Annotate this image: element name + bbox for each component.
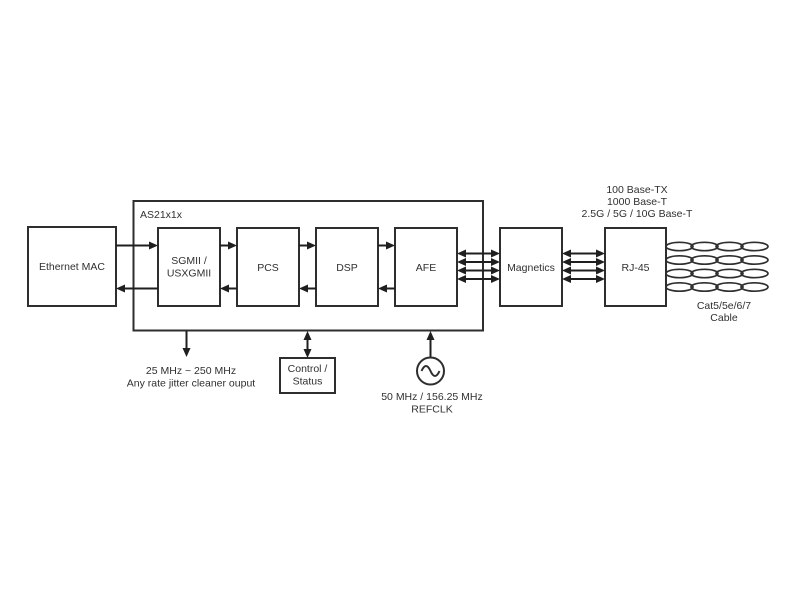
wire Magnetics-RJ45 pair1 xyxy=(569,253,598,255)
svg-text:1000 Base-T: 1000 Base-T xyxy=(607,196,668,208)
svg-text:Control /: Control / xyxy=(288,363,328,375)
twisted pair cable row3 xyxy=(666,269,768,277)
twisted pair cable row1 xyxy=(666,242,768,250)
wire AFE-Magnetics pair2 xyxy=(464,261,493,263)
svg-text:2.5G / 5G / 10G Base-T: 2.5G / 5G / 10G Base-T xyxy=(582,208,693,220)
block DSP xyxy=(316,228,378,306)
wire Magnetics-RJ45 pair3 xyxy=(569,270,598,272)
block Control/Status xyxy=(280,358,335,393)
svg-text:AFE: AFE xyxy=(416,262,436,274)
svg-text:DSP: DSP xyxy=(336,262,358,274)
wire SGMII to PCS xyxy=(220,245,232,247)
wire PCS to DSP xyxy=(299,245,311,247)
twisted pair cable row2 xyxy=(666,256,768,264)
svg-text:USXGMII: USXGMII xyxy=(167,268,211,280)
wire Magnetics-RJ45 pair4 xyxy=(569,278,598,280)
svg-text:Cable: Cable xyxy=(710,312,738,324)
svg-text:PCS: PCS xyxy=(257,262,279,274)
svg-text:SGMII /: SGMII / xyxy=(171,255,207,267)
svg-text:RJ-45: RJ-45 xyxy=(621,262,649,274)
svg-text:25 MHz ~ 250 MHz: 25 MHz ~ 250 MHz xyxy=(146,365,236,377)
svg-text:Magnetics: Magnetics xyxy=(507,262,555,274)
wire MAC to SGMII (tx) xyxy=(116,245,151,247)
wire DSP to AFE xyxy=(378,245,390,247)
svg-text:Cat5/5e/6/7: Cat5/5e/6/7 xyxy=(697,300,751,312)
svg-text:Any rate jitter cleaner ouput: Any rate jitter cleaner ouput xyxy=(127,378,255,390)
wire AFE to DSP xyxy=(383,288,395,290)
wire DSP to PCS xyxy=(304,288,316,290)
block outer AS21x1x boundary xyxy=(134,201,484,331)
oscillator REFCLK symbol xyxy=(417,358,444,385)
wire AFE-Magnetics pair3 xyxy=(464,270,493,272)
svg-text:AS21x1x: AS21x1x xyxy=(140,209,183,221)
wire PCS to SGMII xyxy=(225,288,237,290)
twisted pair cable row4 xyxy=(666,283,768,291)
svg-text:100 Base-TX: 100 Base-TX xyxy=(606,184,667,196)
svg-text:REFCLK: REFCLK xyxy=(411,404,452,416)
block Magnetics xyxy=(500,228,562,306)
svg-text:Ethernet MAC: Ethernet MAC xyxy=(39,261,105,273)
svg-text:50 MHz / 156.25 MHz: 50 MHz / 156.25 MHz xyxy=(381,391,483,403)
wire jitter cleaner output (down arrow) xyxy=(186,331,188,349)
block AFE xyxy=(395,228,457,306)
wire AFE-Magnetics pair4 xyxy=(464,278,493,280)
wire AFE-Magnetics pair1 xyxy=(464,253,493,255)
svg-text:Status: Status xyxy=(293,376,323,388)
block RJ-45 xyxy=(605,228,666,306)
block Ethernet MAC xyxy=(28,227,116,306)
wire Control/Status bidirectional xyxy=(307,337,309,352)
wire REFCLK up arrow xyxy=(430,339,432,357)
wire Magnetics-RJ45 pair2 xyxy=(569,261,598,263)
block SGMII/USXGMII xyxy=(158,228,220,306)
block PCS xyxy=(237,228,299,306)
wire SGMII to MAC (rx) xyxy=(123,288,158,290)
